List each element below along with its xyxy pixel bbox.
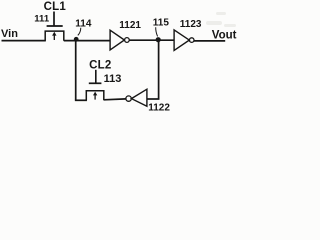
wire vertical up to node 115 (158, 40, 160, 100)
svg-text:111: 111 (34, 14, 50, 25)
inverter U1121 output bubble (125, 38, 130, 43)
capacitor CL2 gate plate (89, 82, 102, 84)
capacitor CL2 stem wire (95, 70, 97, 84)
capacitor CL1 gate plate (47, 25, 63, 27)
node 114 junction dot (74, 37, 79, 42)
faint scan smudges (206, 12, 236, 27)
wire Vin to transistor 111 (2, 40, 46, 42)
svg-text:Vin: Vin (1, 28, 18, 40)
svg-text:1123: 1123 (180, 19, 202, 30)
inverter U1123 output bubble (189, 38, 194, 43)
wire inverter 1122 input to vertical (147, 98, 160, 100)
capacitor CL1 stem wire (53, 12, 55, 27)
transistor (MOS capacitor) 113 channel bump (86, 91, 104, 101)
transistor 113 substrate arrow (93, 92, 97, 100)
svg-text:Vout: Vout (212, 29, 237, 41)
svg-text:CL2: CL2 (89, 60, 111, 72)
node 115 junction dot (156, 37, 161, 42)
svg-text:113: 113 (104, 73, 122, 85)
transistor (MOS capacitor) 111 channel bump (45, 31, 64, 41)
inverter U1122 triangle (points left) (131, 89, 147, 106)
leader line for 114 (78, 28, 81, 36)
svg-text:115: 115 (153, 18, 170, 29)
svg-text:CL1: CL1 (44, 1, 67, 13)
wire inverter 1121 to inverter 1123 (129, 39, 174, 41)
svg-text:1121: 1121 (119, 20, 141, 31)
inverter U1121 triangle (110, 30, 124, 50)
svg-text:1122: 1122 (148, 102, 170, 113)
inverter U1122 output bubble (126, 96, 131, 101)
wire inverter 1123 to Vout (194, 40, 225, 42)
wire node 114 down to bottom row (75, 39, 77, 100)
svg-text:114: 114 (75, 18, 92, 29)
wire transistor 111 to inverter 1121 (64, 40, 110, 42)
transistor 111 substrate arrow (52, 32, 56, 40)
wire transistor 113 to inverter 1122 bubble (104, 98, 126, 101)
inverter U1123 triangle (174, 30, 189, 51)
wire bottom left segment (75, 99, 87, 101)
leader line for 115 (156, 27, 158, 36)
